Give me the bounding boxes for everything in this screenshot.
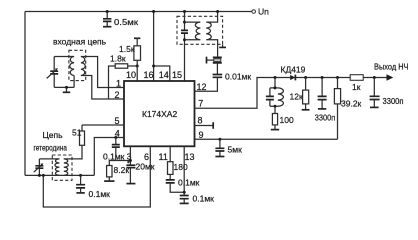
svg-text:14: 14 <box>159 70 169 80</box>
resistor R 51 <box>72 125 85 145</box>
resistor R 1.8к <box>109 54 138 100</box>
wire secondary bottom to pin 2 <box>81 76 124 100</box>
ground shield IF box <box>219 44 226 47</box>
capacitor variable C heterodyne <box>34 159 44 177</box>
wire heterodyne bottom horizontal <box>25 174 94 176</box>
wire top supply rail <box>25 11 252 13</box>
wire pin 16 from rail <box>153 12 155 82</box>
shield box input transformer <box>69 50 86 80</box>
svg-text:15: 15 <box>172 70 182 80</box>
wire pin 14 branch <box>154 66 170 81</box>
capacitor 3300п second <box>370 76 404 107</box>
ground input tank <box>63 86 70 92</box>
wire pin 10 <box>136 66 138 81</box>
capacitor 0.01мк <box>213 63 252 82</box>
svg-text:8.2к: 8.2к <box>114 165 130 175</box>
wire input tank bottom <box>54 86 74 88</box>
inductor IF secondary <box>206 12 217 58</box>
wire pin 8 test point <box>195 122 214 129</box>
IC U1 К174ХА2 <box>124 81 195 146</box>
wire secondary top to pin 1 <box>81 57 124 88</box>
svg-text:1.5к: 1.5к <box>119 44 135 54</box>
piezo resonator ZQ <box>207 57 222 64</box>
capacitor IF tank <box>181 30 188 33</box>
svg-text:0.5мк: 0.5мк <box>114 17 138 27</box>
svg-text:51: 51 <box>72 128 82 138</box>
wire pin 7 to detector rail <box>195 78 387 109</box>
inductor L1 input primary <box>70 57 74 76</box>
svg-text:12к: 12к <box>290 92 303 102</box>
capacitor 0.5мк <box>103 10 138 27</box>
svg-text:Un: Un <box>258 7 269 17</box>
capacitor 0.1мк heterodyne <box>76 174 110 199</box>
inductor L4 heterodyne secondary <box>64 159 68 176</box>
svg-text:8: 8 <box>198 116 203 126</box>
svg-text:11: 11 <box>159 152 168 162</box>
wire pin 11 <box>169 146 171 161</box>
svg-text:39.2к: 39.2к <box>341 99 362 109</box>
wire heterodyne tank top <box>39 158 59 160</box>
wire pin 15 from rail through tank <box>184 12 186 82</box>
shield box IF transformer <box>177 16 223 44</box>
svg-text:1к: 1к <box>352 82 361 92</box>
capacitor 3300п first <box>315 76 336 123</box>
resistor R 12к <box>290 76 310 110</box>
node junction bottom loop <box>42 174 45 177</box>
capacitor 0.1мк pin 4 <box>112 136 120 161</box>
shield box heterodyne transformer <box>52 155 72 180</box>
node tank top <box>274 76 277 79</box>
capacitor 0.1мк pin 11 <box>166 174 200 192</box>
resistor R 1.5к <box>119 38 141 66</box>
diode VD КД419 <box>281 65 306 81</box>
svg-text:9: 9 <box>199 130 204 140</box>
inductor L2 input secondary <box>81 57 85 76</box>
wire input tank top <box>54 56 74 58</box>
wire left vertical from rail down to heterodyne bottom <box>24 12 26 176</box>
svg-text:5: 5 <box>115 116 120 126</box>
svg-text:20мк: 20мк <box>136 162 155 172</box>
svg-text:100: 100 <box>280 115 294 125</box>
svg-text:КД419: КД419 <box>281 65 306 75</box>
wire pin 5 <box>82 124 124 126</box>
terminal Un <box>252 10 256 14</box>
svg-text:10: 10 <box>126 70 136 80</box>
svg-text:1: 1 <box>116 79 121 89</box>
svg-text:Выход НЧ: Выход НЧ <box>374 62 409 72</box>
wire pin 13 <box>183 146 185 195</box>
wire pin 3 node <box>109 161 130 166</box>
svg-text:12: 12 <box>197 82 207 92</box>
wire bottom return loop to pin 6 <box>43 146 150 207</box>
resistor R 1к <box>350 75 363 92</box>
capacitor variable C input <box>47 57 59 88</box>
svg-text:Цепь: Цепь <box>43 130 64 140</box>
capacitor 5мк <box>215 138 242 157</box>
wire heterodyne secondary top to R51 <box>64 145 82 159</box>
svg-text:3300п: 3300п <box>383 96 404 106</box>
svg-text:13: 13 <box>185 152 195 162</box>
inductor L3 heterodyne primary <box>55 159 59 176</box>
svg-text:7: 7 <box>198 99 203 109</box>
resistor R 100 <box>271 106 294 129</box>
node junction R1.5к/R1.8к/pin10 <box>136 65 139 68</box>
wire pin 12 <box>195 78 218 92</box>
svg-text:3300п: 3300п <box>315 113 336 123</box>
detector tank L C <box>266 78 284 108</box>
wire pin 3 vertical <box>129 146 131 165</box>
svg-text:гетеродина: гетеродина <box>34 143 68 153</box>
svg-text:0.1мк: 0.1мк <box>178 178 200 188</box>
capacitor 0.1мк pin 13 <box>180 194 214 204</box>
svg-text:0.1мк: 0.1мк <box>89 189 111 199</box>
svg-text:входная цепь: входная цепь <box>53 37 107 47</box>
svg-text:6: 6 <box>144 152 149 162</box>
svg-text:1.8к: 1.8к <box>110 54 126 64</box>
output arrow Выход НЧ <box>374 62 409 81</box>
svg-text:2: 2 <box>115 90 120 100</box>
resistor R 39.2к <box>334 76 361 139</box>
svg-text:16: 16 <box>144 70 154 80</box>
svg-text:0.1мк: 0.1мк <box>193 194 215 204</box>
resistor R 180 <box>168 162 188 175</box>
inductor IF primary <box>185 22 201 40</box>
svg-text:0.01мк: 0.01мк <box>225 72 251 82</box>
svg-text:К174ХА2: К174ХА2 <box>142 109 177 119</box>
wire pin 9 <box>195 138 338 140</box>
wire pin 4 <box>94 138 124 176</box>
resistor R 8.2к <box>104 165 129 181</box>
capacitor 20мк electrolytic <box>126 161 154 184</box>
svg-text:180: 180 <box>174 162 188 172</box>
svg-text:5мк: 5мк <box>228 145 243 155</box>
